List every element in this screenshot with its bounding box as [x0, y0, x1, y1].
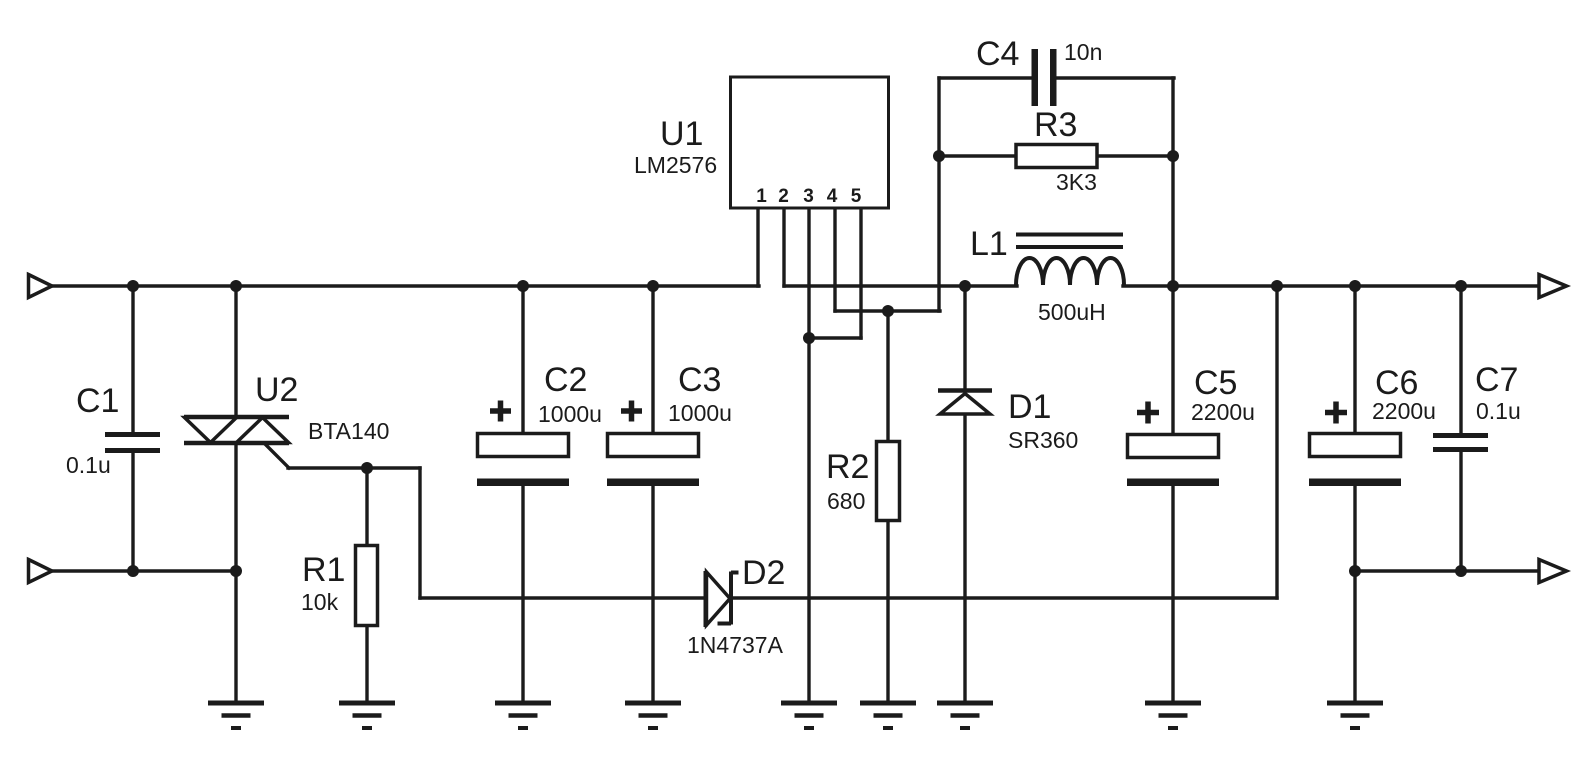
wire R1 top lead	[365, 468, 368, 546]
svg-text:1000u: 1000u	[538, 401, 602, 427]
svg-text:U1: U1	[660, 115, 703, 153]
terminal input plus arrow	[29, 275, 53, 298]
node R3 left junction	[933, 150, 945, 162]
wire U2 gate diagonal	[265, 444, 289, 468]
wire zener feedback line right of D2	[732, 596, 1277, 599]
wire U2 top lead	[234, 286, 237, 416]
svg-text:C5: C5	[1194, 364, 1237, 402]
C5 plus sign	[1137, 402, 1159, 424]
ground U1 pin3	[781, 703, 837, 728]
inductor L1	[1016, 235, 1124, 286]
ground C2	[495, 703, 551, 728]
wire C7 bottom lead	[1459, 451, 1462, 571]
svg-text:C2: C2	[544, 361, 587, 399]
node U2 top junction	[230, 280, 242, 292]
svg-text:10n: 10n	[1064, 39, 1102, 65]
wire D1 anode lead to ground	[963, 414, 966, 703]
wire output bus	[1123, 284, 1539, 287]
terminal input minus arrow	[29, 560, 53, 583]
capacitor C7	[1433, 436, 1488, 450]
wire pin 1 lead	[756, 208, 759, 286]
ground D1	[937, 703, 993, 728]
svg-text:500uH: 500uH	[1038, 299, 1106, 325]
wire bottom-right return bus	[1355, 569, 1539, 572]
wire C6 bottom lead to ground	[1353, 485, 1356, 703]
wire feedback vertical to C4/R3	[937, 78, 940, 311]
wire C4 right lead	[1056, 76, 1174, 79]
wire U2 bottom lead to ground	[234, 444, 237, 703]
node output L1/C5 junction	[1167, 280, 1179, 292]
op-amp U1 box LM2576	[731, 77, 889, 208]
wire pin4 feedback link	[835, 309, 940, 312]
wire pin 4 lead	[833, 208, 836, 311]
wire bottom-left return bus	[53, 569, 236, 572]
ground R2	[860, 703, 916, 728]
wire R1 bottom lead	[365, 625, 368, 703]
wire C1 bottom lead	[131, 452, 134, 571]
svg-text:1000u: 1000u	[668, 400, 732, 426]
node C3 top junction	[647, 280, 659, 292]
wire pin 3 ground lead	[807, 208, 810, 703]
node C7 bottom junction	[1455, 565, 1467, 577]
ground R1	[339, 703, 395, 728]
C3 plus sign	[621, 401, 642, 422]
node C1 top junction	[127, 280, 139, 292]
svg-text:4: 4	[827, 186, 838, 207]
capacitor C4	[1032, 49, 1057, 106]
wire C3 bottom lead	[651, 485, 654, 703]
node R3 right junction	[1167, 150, 1179, 162]
wire C6 top lead	[1353, 286, 1356, 434]
svg-text:SR360: SR360	[1008, 427, 1078, 453]
wire pin 2 lead	[782, 208, 785, 286]
resistor R3	[1016, 145, 1097, 168]
wire C5 bottom lead to ground	[1171, 485, 1174, 703]
capacitor C6	[1309, 434, 1401, 487]
zener diode D2 1N4737A	[706, 571, 739, 627]
svg-text:C4: C4	[976, 35, 1019, 73]
svg-text:0.1u: 0.1u	[1476, 398, 1521, 424]
node C6 top junction	[1349, 280, 1361, 292]
wire C2 bottom lead	[521, 485, 524, 703]
node output sense junction	[1271, 280, 1283, 292]
node R1 gate junction	[361, 462, 373, 474]
capacitor C1	[105, 435, 160, 451]
wire C3 top lead	[651, 286, 654, 434]
svg-text:C1: C1	[76, 382, 119, 420]
transistor U2 triac	[184, 417, 289, 443]
resistor R1	[356, 546, 378, 626]
svg-text:2: 2	[778, 186, 789, 207]
svg-text:C7: C7	[1475, 361, 1518, 399]
svg-text:10k: 10k	[301, 589, 339, 615]
svg-text:5: 5	[851, 186, 862, 207]
terminal output plus arrow	[1539, 275, 1567, 298]
C2 plus sign	[490, 401, 511, 422]
capacitor C3	[607, 434, 699, 487]
wire C1 top lead	[131, 286, 134, 433]
wire pin 5 lead	[859, 208, 862, 338]
terminal output minus arrow	[1539, 560, 1567, 583]
node R2 feedback junction	[882, 305, 894, 317]
node C2 top junction	[517, 280, 529, 292]
svg-text:2200u: 2200u	[1191, 399, 1255, 425]
wire input bus top	[53, 284, 759, 287]
resistor R2	[877, 442, 900, 521]
svg-text:R2: R2	[826, 448, 869, 486]
capacitor C2	[477, 434, 569, 487]
svg-text:D1: D1	[1008, 388, 1051, 426]
wire gate line horizontal	[288, 466, 420, 469]
svg-text:LM2576: LM2576	[634, 152, 717, 178]
svg-text:3: 3	[803, 186, 814, 207]
node D1 switch junction	[959, 280, 971, 292]
svg-text:680: 680	[827, 488, 865, 514]
diode D1 SR360	[938, 391, 992, 415]
ground C5	[1145, 703, 1201, 728]
wire D1 cathode lead	[963, 286, 966, 389]
wire R3 left lead	[939, 154, 1016, 157]
ground U2	[208, 703, 264, 728]
wire pin3-pin5 ground link	[809, 336, 861, 339]
svg-text:R1: R1	[302, 551, 345, 589]
svg-text:L1: L1	[970, 225, 1008, 263]
ground C3	[625, 703, 681, 728]
wire C7 top lead	[1459, 286, 1462, 434]
wire C4 left lead	[939, 76, 1032, 79]
node pin3 ground junction	[803, 332, 815, 344]
wire C4/R3 right vertical	[1171, 78, 1174, 286]
svg-text:3K3: 3K3	[1056, 169, 1097, 195]
svg-text:2200u: 2200u	[1372, 398, 1436, 424]
ground C6	[1327, 703, 1383, 728]
wire C2 top lead	[521, 286, 524, 434]
svg-text:R3: R3	[1034, 106, 1077, 144]
svg-text:BTA140: BTA140	[308, 418, 389, 444]
wire gate line vertical drop	[418, 468, 421, 598]
C6 plus sign	[1325, 402, 1347, 424]
svg-text:0.1u: 0.1u	[66, 452, 111, 478]
capacitor C5	[1127, 435, 1219, 487]
svg-text:1N4737A: 1N4737A	[687, 632, 784, 658]
svg-text:1: 1	[756, 186, 767, 207]
node C6 bottom junction	[1349, 565, 1361, 577]
svg-text:C6: C6	[1375, 364, 1418, 402]
svg-text:U2: U2	[255, 371, 298, 409]
wire R2 top lead	[886, 311, 889, 442]
wire C5 top lead	[1171, 286, 1174, 436]
svg-text:C3: C3	[678, 361, 721, 399]
wire R2 bottom lead	[886, 520, 889, 703]
wire zener feedback line left of D2	[420, 596, 705, 599]
wire R3 right lead	[1097, 154, 1174, 157]
wire switch node bus	[784, 284, 1017, 287]
node C7 top junction	[1455, 280, 1467, 292]
node U2 bottom junction	[230, 565, 242, 577]
wire output sense vertical	[1275, 286, 1278, 598]
svg-text:D2: D2	[742, 554, 785, 592]
node C1 bottom junction	[127, 565, 139, 577]
